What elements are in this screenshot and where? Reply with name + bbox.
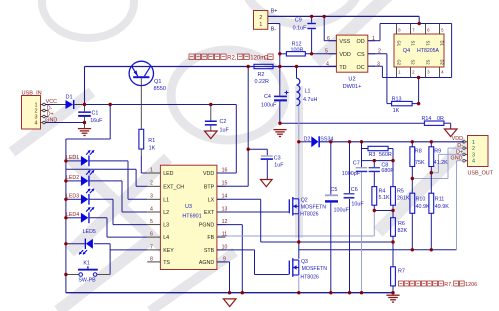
wire R3 taps	[362, 149, 394, 161]
capacitor C8 680P	[369, 163, 395, 175]
svg-text:D2: D2	[304, 137, 311, 143]
LED1	[66, 150, 94, 166]
svg-text:D1: D1	[66, 95, 73, 101]
resistor R11 49.9K	[429, 193, 449, 213]
svg-text:10uF: 10uF	[351, 201, 364, 207]
wire USB_OUT GND down	[457, 161, 464, 250]
wire U3 LX to switch rail	[217, 199, 393, 242]
svg-text:3: 3	[472, 152, 475, 158]
wire K1 to U3 KEY	[110, 249, 147, 251]
svg-text:USB_IN: USB_IN	[22, 90, 42, 96]
svg-text:0.22R: 0.22R	[255, 79, 269, 85]
wire Q4 gate rail	[368, 24, 452, 78]
svg-text:1uF: 1uF	[220, 127, 230, 133]
wire U3 EXT to Q2 gate	[217, 211, 289, 213]
resistor R10 40.9K	[410, 193, 430, 213]
wire lower gnd-return rail	[299, 249, 457, 251]
svg-text:DW01+: DW01+	[343, 84, 362, 90]
svg-text:TD: TD	[339, 65, 346, 71]
svg-text:1: 1	[259, 22, 262, 28]
svg-text:B-: B-	[271, 27, 277, 33]
mosfet Q2 HT8026	[289, 197, 326, 217]
capacitor C6 10uF	[344, 187, 365, 207]
svg-text:100R: 100R	[291, 48, 304, 54]
wire C5 column	[330, 142, 332, 293]
svg-text:R9: R9	[434, 149, 441, 155]
svg-text:HT8026: HT8026	[300, 275, 319, 281]
svg-text:Q2: Q2	[301, 198, 308, 204]
svg-text:R5: R5	[397, 188, 404, 194]
resistor R7	[391, 267, 405, 286]
svg-text:100uF: 100uF	[334, 208, 350, 214]
wire Q3 source to ground rail	[298, 276, 300, 292]
svg-text:0R: 0R	[437, 116, 444, 122]
wire U3 FB sense	[217, 211, 374, 237]
IC U2 DW01+ battery protection	[325, 35, 381, 90]
svg-text:S2: S2	[426, 60, 431, 66]
IC U3 HT6901 controller	[147, 165, 227, 269]
resistor R13 1K	[392, 97, 413, 114]
svg-text:7: 7	[150, 244, 153, 250]
wire D+ link	[431, 154, 464, 172]
resistor R6 82K	[391, 218, 408, 237]
svg-text:VDD: VDD	[203, 171, 214, 177]
svg-text:R8: R8	[415, 149, 422, 155]
svg-text:B+: B+	[271, 8, 278, 14]
svg-text:4: 4	[35, 121, 38, 127]
wire LED5 row	[66, 244, 110, 275]
svg-text:R1: R1	[148, 138, 155, 144]
ground under C4	[273, 130, 286, 137]
svg-text:C9: C9	[295, 17, 302, 23]
power port triangle under C2	[205, 131, 218, 139]
wire D- link	[412, 148, 464, 178]
svg-text:4.7uH: 4.7uH	[303, 97, 317, 103]
svg-text:3: 3	[150, 194, 153, 200]
svg-text:C1: C1	[92, 111, 99, 117]
svg-text:STB: STB	[204, 248, 215, 254]
resistor R1 1K	[139, 129, 156, 156]
capacitor C1 16uF	[78, 105, 103, 129]
svg-text:261K: 261K	[397, 196, 410, 202]
wire L1 top lead	[296, 67, 298, 79]
resistor R5 261K	[391, 187, 410, 206]
transistor Q1 8550	[129, 61, 166, 129]
svg-text:C3: C3	[274, 155, 281, 161]
capacitor C4 100uF	[261, 91, 289, 109]
resistor R3 560R	[368, 146, 392, 158]
wire C7 column lower	[361, 172, 363, 293]
diode D2 SS34	[304, 136, 334, 147]
wire LED4 row to U3 L4	[66, 218, 147, 237]
svg-text:L2: L2	[163, 210, 169, 216]
resistor R4 5.1K	[372, 187, 390, 206]
capacitor C3 1uF	[261, 155, 285, 168]
wire Q4 top pin stubs	[397, 24, 440, 35]
svg-text:1: 1	[150, 167, 153, 173]
svg-text:R4: R4	[379, 188, 386, 194]
LED5	[79, 229, 96, 254]
svg-text:0.1uF: 0.1uF	[293, 26, 307, 32]
diode D1	[54, 95, 85, 109]
svg-text:R11: R11	[435, 196, 445, 202]
svg-text:Q4: Q4	[403, 48, 410, 54]
svg-text:EXT: EXT	[204, 210, 215, 216]
svg-text:K1: K1	[83, 260, 90, 266]
resistor R12 100R	[286, 41, 305, 56]
svg-text:5: 5	[150, 219, 153, 225]
svg-text:100uF: 100uF	[261, 103, 277, 109]
wire B- column to C4 and sense rail	[268, 24, 280, 124]
svg-text:LED4: LED4	[66, 212, 79, 218]
svg-text:82K: 82K	[398, 228, 408, 234]
power port triangle AGND	[223, 299, 236, 307]
wire bottom ground rail	[66, 292, 393, 294]
svg-text:R2,: R2,	[227, 56, 237, 62]
wire U3 BTP column to top rail	[217, 67, 248, 187]
IC Q4 HT8205A dual mosfet	[394, 27, 445, 74]
wire C7 column upper	[362, 142, 394, 167]
wire C6 column	[349, 142, 351, 293]
note R7 package	[399, 281, 478, 288]
capacitor C7 1000pF	[342, 161, 367, 177]
wire bus to U3 EXT_CH	[66, 169, 147, 186]
svg-text:EXT_CH: EXT_CH	[163, 184, 184, 190]
svg-text:8550: 8550	[154, 86, 166, 92]
wire B+ feed rail	[268, 16, 419, 23]
svg-text:680P: 680P	[381, 168, 394, 174]
svg-text:MOSFETN: MOSFETN	[302, 266, 328, 272]
svg-text:LED2: LED2	[66, 175, 79, 181]
wire U2 CS to R13	[368, 54, 392, 104]
inductor L1 4.7uH	[297, 78, 318, 105]
svg-text:S2: S2	[411, 60, 416, 66]
mosfet Q3 HT8026	[289, 258, 327, 280]
svg-text:LED: LED	[163, 171, 173, 177]
wire LED1 row to U3 L1	[66, 161, 147, 199]
svg-text:1000pF: 1000pF	[342, 171, 361, 177]
connector J1 USB_IN	[22, 90, 58, 129]
svg-text:R7,: R7,	[444, 282, 453, 288]
svg-text:R12: R12	[292, 41, 302, 47]
svg-text:1: 1	[472, 140, 475, 146]
svg-text:6: 6	[150, 232, 153, 238]
svg-text:4: 4	[472, 159, 475, 165]
svg-text:L4: L4	[163, 235, 169, 241]
svg-text:PGND: PGND	[199, 223, 214, 229]
wire R14 to VDD power port	[444, 123, 451, 129]
svg-text:R2: R2	[258, 72, 265, 78]
svg-text:2: 2	[472, 146, 475, 152]
svg-text:HT8205A: HT8205A	[417, 48, 439, 54]
svg-text:49.9K: 49.9K	[435, 204, 449, 210]
wire Q4 bottom pin stubs	[397, 67, 440, 78]
ground under R7	[386, 295, 399, 302]
svg-text:R10: R10	[416, 196, 426, 202]
svg-text:560R: 560R	[379, 152, 392, 158]
svg-text:2: 2	[259, 15, 262, 21]
wire R12 to U2 VDD	[280, 53, 337, 55]
capacitor C2 1uF	[205, 105, 230, 134]
svg-text:MOSFETN: MOSFETN	[301, 205, 327, 211]
wire top rail through R2 to U2 TD	[85, 67, 337, 105]
svg-text:TS: TS	[163, 260, 170, 266]
svg-text:U3: U3	[185, 204, 192, 210]
LED3	[66, 189, 94, 205]
svg-text:C7: C7	[353, 161, 360, 167]
capacitor C5 100uF	[325, 187, 349, 214]
svg-text:R7: R7	[398, 268, 405, 274]
svg-text:LED1: LED1	[66, 155, 79, 161]
wire R4 R5 bottom rail	[374, 205, 393, 210]
svg-text:S1: S1	[426, 41, 431, 47]
svg-text:R13: R13	[392, 97, 402, 103]
resistor R14 0R	[422, 116, 444, 126]
svg-text:1K: 1K	[393, 108, 400, 114]
svg-text:OD: OD	[357, 39, 365, 45]
wire R1 to U3 LED pin	[141, 156, 147, 173]
wire U3 AGND to ground rail	[217, 262, 230, 293]
svg-text:C6: C6	[351, 187, 358, 193]
svg-text:2: 2	[150, 181, 153, 187]
LED4	[66, 207, 94, 223]
LED2	[66, 170, 94, 186]
svg-text:D1: D1	[440, 41, 445, 47]
net label B+	[271, 8, 278, 14]
svg-text:1K: 1K	[149, 145, 156, 151]
wire LED anode bus	[66, 105, 110, 293]
svg-text:1uF: 1uF	[274, 163, 284, 169]
power port triangle VDD	[444, 129, 457, 137]
svg-text:USB_OUT: USB_OUT	[468, 170, 494, 176]
resistor R2 0.22R	[254, 64, 273, 85]
svg-text:SW-PB: SW-PB	[78, 278, 96, 284]
svg-text:FB: FB	[207, 235, 214, 241]
net label B-	[271, 27, 277, 33]
svg-text:AGND: AGND	[199, 260, 214, 266]
wire R7 to ground	[392, 286, 394, 293]
capacitor C9 0.1uF	[293, 17, 316, 31]
connector J2 battery B+/B-	[254, 11, 268, 30]
wire R13 to Q4 source rail	[412, 78, 419, 104]
ground under C1	[78, 129, 91, 136]
svg-text:4: 4	[150, 206, 153, 212]
wire C8 to R4 column	[373, 161, 375, 187]
svg-text:41.2K: 41.2K	[434, 160, 448, 166]
switch K1 SW-PB	[66, 260, 110, 283]
wire Q4 bottom rail	[368, 66, 452, 77]
wire L1 bottom to boost node	[298, 106, 300, 142]
svg-text:R14: R14	[422, 116, 432, 122]
note current sense resistor	[189, 54, 273, 62]
svg-text:16uF: 16uF	[90, 118, 103, 124]
wire VCC rail from USB_IN to C2/U3-VDD	[45, 105, 236, 174]
svg-text:S1: S1	[411, 41, 416, 47]
svg-text:VSS: VSS	[339, 39, 350, 45]
wire Q2 drain column	[298, 142, 300, 199]
svg-text:11: 11	[222, 232, 227, 238]
wire USB_IN GND to C1	[45, 122, 84, 124]
wire D2 cathode VDD rail to USB_OUT	[320, 141, 464, 143]
svg-text:L1: L1	[163, 197, 169, 203]
wire U3 STB to Q3 gate	[217, 250, 289, 275]
power port triangle under C3	[261, 180, 273, 187]
svg-text:5.1K: 5.1K	[379, 195, 390, 201]
svg-text:R6: R6	[398, 221, 405, 227]
svg-text:LX: LX	[208, 197, 215, 203]
resistor R8 75K	[410, 147, 425, 167]
connector J3 USB_OUT	[451, 136, 494, 177]
svg-text:HT8026: HT8026	[300, 211, 319, 217]
wire R9 column and D+ divider tap	[430, 142, 432, 250]
svg-text:Q1: Q1	[154, 79, 161, 85]
svg-text:LED5: LED5	[83, 229, 96, 235]
svg-text:G2: G2	[397, 60, 402, 66]
resistor R9 41.2K	[429, 147, 448, 167]
svg-text:R3: R3	[369, 152, 376, 158]
wire LED3 row to U3 L3	[66, 199, 147, 224]
svg-text:L3: L3	[163, 223, 169, 229]
svg-text:C2: C2	[220, 119, 227, 125]
svg-text:75K: 75K	[415, 160, 425, 166]
svg-text:VDD: VDD	[339, 52, 350, 58]
svg-text:L1: L1	[305, 89, 311, 95]
wire Q2 source to Q3 drain column	[298, 214, 300, 258]
svg-text:KEY: KEY	[163, 248, 174, 254]
wire C3 branch	[248, 149, 267, 179]
svg-text:Ω: Ω	[264, 56, 269, 62]
wire boost node to D2 anode	[299, 141, 312, 143]
svg-text:C4: C4	[264, 94, 271, 100]
wire LED2 row to U3 L2	[66, 181, 147, 212]
wire R8 column and D- divider tap	[411, 142, 413, 250]
wire C9 leads	[311, 16, 313, 53]
svg-text:C5: C5	[331, 187, 338, 193]
svg-text:8: 8	[150, 256, 153, 262]
wire U2 VSS to B+ rail	[324, 16, 336, 40]
svg-text:LED3: LED3	[66, 194, 79, 200]
wire R5 column	[392, 161, 394, 187]
svg-text:1206: 1206	[465, 282, 477, 288]
svg-text:U2: U2	[348, 77, 355, 83]
wire C4 ground rail to R14	[280, 122, 425, 124]
svg-text:40.9K: 40.9K	[416, 204, 430, 210]
svg-text:D2: D2	[440, 60, 445, 66]
svg-text:HT6901: HT6901	[182, 214, 201, 220]
wire R6 column	[392, 211, 394, 267]
wire U3 PGND to ground rail	[217, 225, 242, 293]
svg-text:Q3: Q3	[301, 259, 308, 265]
svg-text:CS: CS	[357, 52, 365, 58]
svg-text:OC: OC	[357, 65, 365, 71]
svg-text:BTP: BTP	[204, 184, 215, 190]
svg-text:G1: G1	[397, 41, 402, 47]
